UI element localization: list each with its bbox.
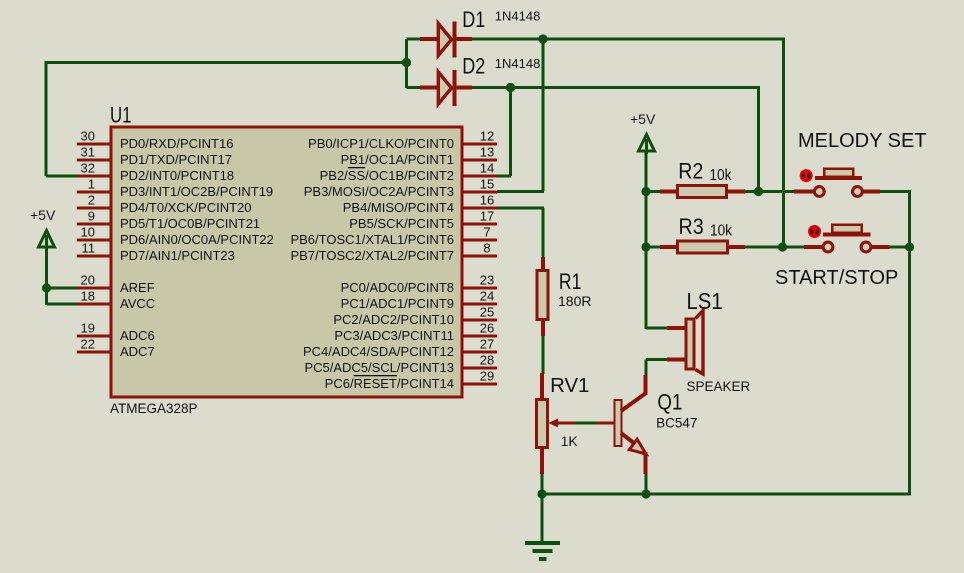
- svg-text:PC6/RESET/PCINT14: PC6/RESET/PCINT14: [325, 376, 454, 391]
- wire +5V to AREF: [47, 287, 79, 290]
- wire speaker bottom horizontal: [646, 358, 667, 361]
- svg-text:+5V: +5V: [630, 111, 656, 127]
- svg-text:PC1/ADC1/PCINT9: PC1/ADC1/PCINT9: [341, 296, 454, 311]
- svg-text:PB6/TOSC1/XTAL1/PCINT6: PB6/TOSC1/XTAL1/PCINT6: [290, 232, 454, 247]
- resistor R3 right lead: [727, 245, 745, 249]
- speaker LS1 bottom lead: [667, 358, 686, 362]
- pin 11 PD7/AIN1/PCINT23 (left): [77, 255, 111, 258]
- svg-text:D2: D2: [462, 53, 485, 78]
- svg-text:28: 28: [480, 353, 494, 368]
- svg-text:PC3/ADC3/PCINT11: PC3/ADC3/PCINT11: [334, 328, 454, 343]
- button MELODY left lead: [794, 190, 814, 194]
- svg-text:Q1: Q1: [657, 389, 682, 414]
- svg-text:BC547: BC547: [656, 416, 697, 431]
- button START/STOP left terminal: [823, 242, 833, 252]
- svg-text:PD7/AIN1/PCINT23: PD7/AIN1/PCINT23: [120, 248, 235, 263]
- pin 13 PB1/OC1A/PCINT1 (right): [462, 159, 497, 162]
- svg-text:13: 13: [480, 145, 494, 160]
- diode D1 cathode bar: [453, 22, 457, 58]
- wire R3 left: [646, 246, 662, 249]
- transistor Q1 collector lead: [644, 375, 648, 395]
- svg-text:1K: 1K: [561, 433, 579, 449]
- diode D2 cathode bar: [453, 70, 457, 106]
- speaker LS1 cone: [696, 311, 704, 375]
- pin 19 ADC6 (left): [77, 335, 111, 338]
- wire +5V rail right vertical: [645, 152, 648, 329]
- button START/STOP right lead: [872, 245, 890, 249]
- power +5V symbol (left) arrow: [39, 231, 55, 248]
- svg-text:PB4/MISO/PCINT4: PB4/MISO/PCINT4: [343, 200, 454, 215]
- node ground rail left junction: [537, 489, 546, 498]
- pin 23 PC0/ADC0/PCINT8 (right): [462, 287, 497, 290]
- svg-text:23: 23: [480, 273, 494, 288]
- potentiometer RV1 top lead: [540, 373, 544, 400]
- pin 29 PC6/RESET/PCINT14 (right): [462, 383, 497, 386]
- node +5V rail R3 junction: [641, 242, 650, 251]
- svg-text:29: 29: [480, 369, 494, 384]
- node R3 row junction: [778, 242, 787, 251]
- svg-text:8: 8: [483, 241, 490, 256]
- node D1 cathode junction: [538, 34, 547, 43]
- wire D1 cathode horizontal: [471, 38, 785, 41]
- button MELODY right lead: [863, 190, 880, 194]
- button MELODY plunger bar: [815, 176, 862, 180]
- svg-text:PB3/MOSI/OC2A/PCINT3: PB3/MOSI/OC2A/PCINT3: [304, 184, 454, 199]
- svg-text:9: 9: [88, 209, 95, 224]
- svg-text:18: 18: [81, 289, 95, 304]
- svg-text:24: 24: [480, 289, 494, 304]
- svg-text:7: 7: [483, 225, 490, 240]
- wire right vertical to ground rail: [908, 192, 911, 496]
- svg-text:15: 15: [480, 177, 494, 192]
- svg-text:PC0/ADC0/PCINT8: PC0/ADC0/PCINT8: [341, 280, 454, 295]
- pin 12 PB0/ICP1/CLKO/PCINT0 (right): [462, 143, 497, 146]
- svg-text:26: 26: [480, 321, 494, 336]
- svg-text:10k: 10k: [710, 222, 733, 239]
- svg-text:1N4148: 1N4148: [495, 9, 541, 24]
- resistor R1 bottom lead: [541, 320, 545, 336]
- transistor Q1 collector diagonal: [621, 393, 646, 411]
- svg-text:2: 2: [88, 193, 95, 208]
- svg-text:PB5/SCK/PCINT5: PB5/SCK/PCINT5: [349, 216, 454, 231]
- svg-text:PB7/TOSC2/XTAL2/PCINT7: PB7/TOSC2/XTAL2/PCINT7: [290, 248, 454, 263]
- pin 2 PD4/T0/XCK/PCINT20 (left): [77, 207, 111, 210]
- pin 20 AREF (left): [77, 287, 111, 290]
- pin 24 PC1/ADC1/PCINT9 (right): [462, 303, 497, 306]
- svg-text:SPEAKER: SPEAKER: [687, 379, 751, 394]
- svg-text:25: 25: [480, 305, 494, 320]
- svg-text:PD2/INT0/PCINT18: PD2/INT0/PCINT18: [120, 168, 234, 183]
- resistor R2 left lead: [660, 190, 678, 194]
- svg-text:MELODY SET: MELODY SET: [798, 130, 927, 152]
- power +5V symbol (right) arrow: [639, 135, 655, 152]
- button START/STOP left lead: [804, 245, 822, 249]
- ic U1 ATMEGA328P body: [111, 127, 462, 397]
- svg-text:R3: R3: [679, 214, 704, 239]
- svg-text:D1: D1: [462, 7, 485, 32]
- pin 15 PB3/MOSI/OC2A/PCINT3 (right): [462, 191, 497, 194]
- resistor R3 body: [678, 241, 728, 253]
- node diode anode junction: [402, 58, 411, 67]
- svg-text:180R: 180R: [558, 293, 591, 309]
- svg-text:32: 32: [81, 161, 95, 176]
- svg-text:R1: R1: [559, 269, 582, 294]
- svg-text:AVCC: AVCC: [120, 296, 155, 311]
- wire +5V left vertical: [45, 248, 48, 305]
- wire diode anode split vertical: [405, 39, 408, 88]
- resistor R2 body: [678, 186, 727, 198]
- wire speaker bottom vertical: [645, 360, 648, 377]
- pin 17 PB5/SCK/PCINT5 (right): [462, 223, 497, 226]
- wire speaker top horizontal: [646, 327, 669, 330]
- wire D2 anode: [407, 86, 422, 89]
- svg-text:22: 22: [81, 337, 95, 352]
- transistor Q1 emitter diagonal: [621, 433, 637, 446]
- resistor R1 body: [537, 271, 548, 320]
- pin 1 PD3/INT1/OC2B/PCINT19 (left): [77, 191, 111, 194]
- pin 26 PC3/ADC3/PCINT11 (right): [462, 335, 497, 338]
- potentiometer RV1 wiper arrow: [549, 419, 559, 428]
- svg-text:19: 19: [81, 321, 95, 336]
- pin 9 PD5/T1/OC0B/PCINT21 (left): [77, 223, 111, 226]
- diode D2 cathode lead: [456, 86, 472, 90]
- pin 16 PB4/MISO/PCINT4 (right): [462, 207, 497, 210]
- svg-text:14: 14: [480, 161, 494, 176]
- svg-text:1N4148: 1N4148: [495, 56, 541, 71]
- wire PB4 net vertical to R1: [542, 208, 545, 258]
- wire PD2 net to pin 32: [46, 175, 78, 178]
- pin 27 PC4/ADC4/SDA/PCINT12 (right): [462, 351, 497, 354]
- svg-text:PD5/T1/OC0B/PCINT21: PD5/T1/OC0B/PCINT21: [120, 216, 260, 231]
- pin 32 PD2/INT0/PCINT18 (left): [77, 175, 111, 178]
- button MELODY left terminal: [814, 187, 824, 197]
- svg-text:27: 27: [480, 337, 494, 352]
- wire ground rail: [541, 493, 910, 496]
- svg-text:START/STOP: START/STOP: [775, 267, 898, 289]
- potentiometer RV1 bottom lead: [540, 447, 544, 474]
- svg-text:30: 30: [81, 129, 95, 144]
- svg-text:20: 20: [81, 273, 95, 288]
- wire R2 left: [646, 190, 661, 193]
- diode D1 triangle: [438, 24, 451, 56]
- wire D1 net vertical to PB3: [542, 38, 545, 192]
- pin 10 PD6/AIN0/OC0A/PCINT22 (left): [77, 239, 111, 242]
- pin 28 PC5/ADC5/SCL/PCINT13 (right): [462, 367, 497, 370]
- wire D1 net vertical to R3 row: [782, 39, 785, 247]
- wire PB3 pin horizontal: [497, 190, 544, 193]
- svg-text:PD3/INT1/OC2B/PCINT19: PD3/INT1/OC2B/PCINT19: [120, 184, 273, 199]
- potentiometer RV1 body: [537, 400, 548, 448]
- wire R3 row to START button: [744, 246, 805, 249]
- svg-text:12: 12: [480, 129, 494, 144]
- resistor R1 top lead: [541, 257, 545, 271]
- wire PB2 pin to vertical: [497, 175, 511, 178]
- pin 25 PC2/ADC2/PCINT10 (right): [462, 319, 497, 322]
- diode D1 anode lead: [420, 37, 438, 41]
- wire R1 to RV1: [542, 335, 545, 374]
- wire R2 row to MELODY button: [744, 190, 795, 193]
- transistor Q1 base bar: [615, 400, 622, 446]
- node Q1 emitter rail junction: [641, 489, 650, 498]
- svg-text:10k: 10k: [709, 167, 732, 184]
- pin 31 PD1/TXD/PCINT17 (left): [77, 159, 111, 162]
- wire D2 net vertical to R2 row: [757, 88, 760, 192]
- wire START right horizontal: [872, 246, 911, 249]
- speaker LS1 body rect: [686, 319, 694, 369]
- node +5V rail R2 junction: [641, 187, 650, 196]
- svg-text:LS1: LS1: [687, 288, 723, 314]
- node R2 row junction: [754, 187, 763, 196]
- wire D2 net vertical to PB2: [509, 86, 512, 176]
- button MELODY plunger cap: [824, 169, 853, 177]
- potentiometer RV1 wiper lead to base: [596, 422, 615, 425]
- button START/STOP right terminal: [861, 242, 871, 252]
- wire RV1 wiper to Q1 base: [575, 422, 597, 425]
- pin 18 AVCC (left): [77, 303, 111, 306]
- svg-text:ATMEGA328P: ATMEGA328P: [110, 401, 198, 416]
- svg-text:PD0/RXD/PCINT16: PD0/RXD/PCINT16: [120, 136, 233, 151]
- svg-text:AREF: AREF: [120, 280, 155, 295]
- transistor Q1 emitter arrow: [629, 439, 646, 454]
- pin 22 ADC7 (left): [77, 351, 111, 354]
- svg-text:U1: U1: [110, 102, 132, 127]
- svg-text:PC5/ADC5/SCL/PCINT13: PC5/ADC5/SCL/PCINT13: [304, 360, 454, 375]
- svg-text:ADC6: ADC6: [120, 328, 155, 343]
- svg-text:11: 11: [82, 241, 96, 256]
- wire PB4 pin horizontal: [497, 207, 544, 210]
- speaker LS1 top lead: [667, 326, 686, 330]
- pin 30 PD0/RXD/PCINT16 (left): [77, 143, 111, 146]
- button MELODY actuator indicator: [801, 170, 812, 181]
- wire Q1 emitter to rail: [645, 473, 648, 496]
- button START/STOP actuator indicator: [809, 226, 820, 237]
- ground symbol: [541, 494, 544, 542]
- svg-text:ADC7: ADC7: [120, 344, 155, 359]
- wire PD2 net horizontal top: [45, 61, 408, 64]
- diode D1 cathode lead: [456, 37, 472, 41]
- wire +5V to AVCC: [47, 303, 79, 306]
- resistor R2 right lead: [726, 190, 745, 194]
- wire RV1 bottom to rail: [541, 473, 544, 496]
- node AREF junction: [42, 283, 51, 292]
- diode D2 triangle: [438, 72, 451, 104]
- svg-text:1: 1: [88, 177, 95, 192]
- node D2 cathode junction: [506, 83, 515, 92]
- svg-text:17: 17: [480, 209, 494, 224]
- svg-text:PB1/OC1A/PCINT1: PB1/OC1A/PCINT1: [341, 152, 454, 167]
- wire D2 cathode horizontal: [471, 86, 760, 89]
- svg-text:31: 31: [81, 145, 95, 160]
- diode D2 anode lead: [420, 86, 438, 90]
- svg-text:R2: R2: [678, 159, 703, 184]
- svg-text:PB2/SS/OC1B/PCINT2: PB2/SS/OC1B/PCINT2: [320, 168, 454, 183]
- wire PD2 net vertical left: [45, 61, 48, 176]
- svg-text:+5V: +5V: [30, 207, 56, 223]
- button MELODY right terminal: [853, 187, 863, 197]
- pin 14 PB2/SS/OC1B/PCINT2 (right): [462, 175, 497, 178]
- svg-text:PD6/AIN0/OC0A/PCINT22: PD6/AIN0/OC0A/PCINT22: [120, 232, 274, 247]
- svg-text:PB0/ICP1/CLKO/PCINT0: PB0/ICP1/CLKO/PCINT0: [308, 136, 454, 151]
- pin 8 PB7/TOSC2/XTAL2/PCINT7 (right): [462, 255, 497, 258]
- node START right junction: [905, 242, 914, 251]
- svg-text:PD1/TXD/PCINT17: PD1/TXD/PCINT17: [120, 152, 232, 167]
- wire D1 anode: [407, 38, 422, 41]
- svg-text:PC2/ADC2/PCINT10: PC2/ADC2/PCINT10: [333, 312, 454, 327]
- button START/STOP plunger bar: [823, 233, 871, 237]
- svg-text:16: 16: [480, 193, 494, 208]
- wire MELODY right horizontal: [879, 190, 911, 193]
- svg-text:10: 10: [81, 225, 95, 240]
- pin 7 PB6/TOSC1/XTAL1/PCINT6 (right): [462, 239, 497, 242]
- svg-text:RV1: RV1: [550, 375, 589, 397]
- svg-text:PC4/ADC4/SDA/PCINT12: PC4/ADC4/SDA/PCINT12: [303, 344, 454, 359]
- button START/STOP plunger cap: [832, 225, 862, 233]
- resistor R3 left lead: [660, 245, 678, 249]
- svg-text:PD4/T0/XCK/PCINT20: PD4/T0/XCK/PCINT20: [120, 200, 252, 215]
- transistor Q1 emitter lead: [644, 452, 648, 474]
